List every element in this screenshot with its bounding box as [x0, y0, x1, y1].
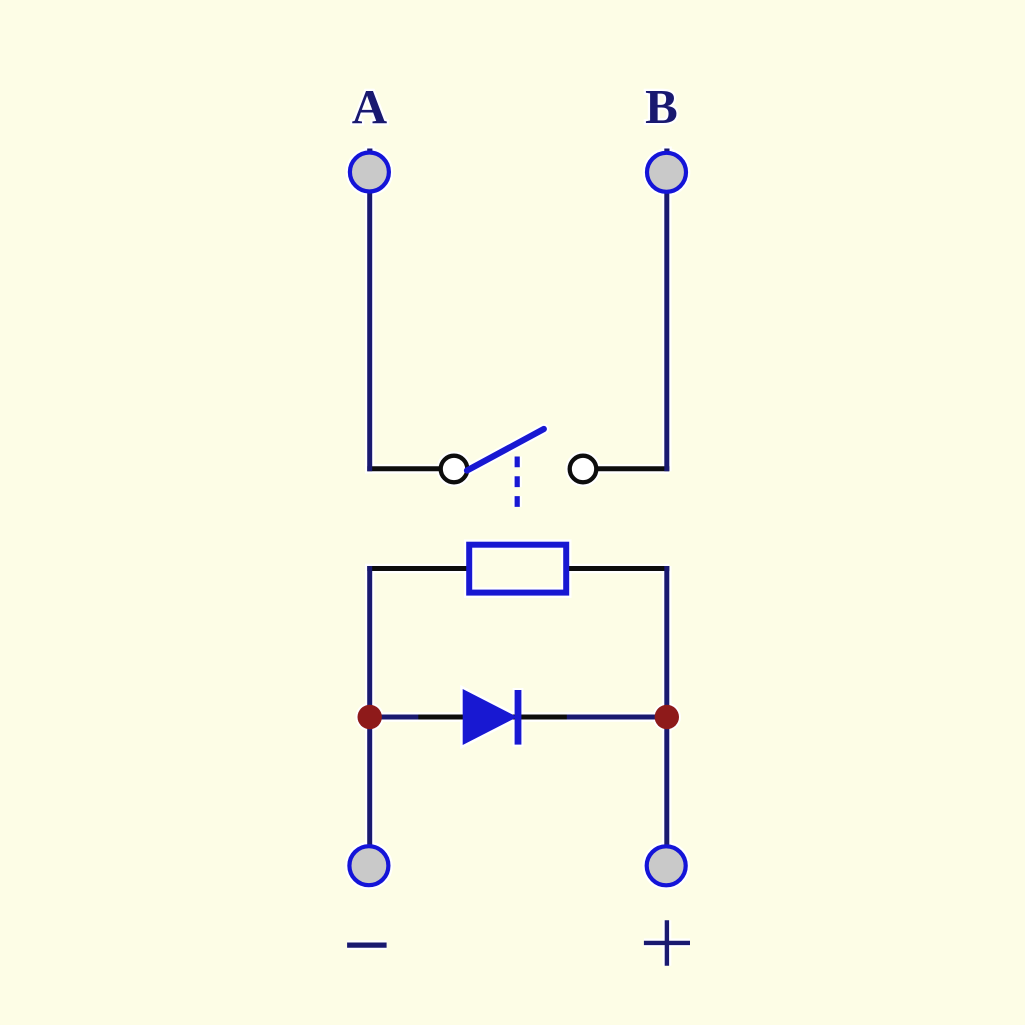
svg-text:B: B — [645, 79, 678, 134]
svg-text:A: A — [352, 79, 388, 134]
